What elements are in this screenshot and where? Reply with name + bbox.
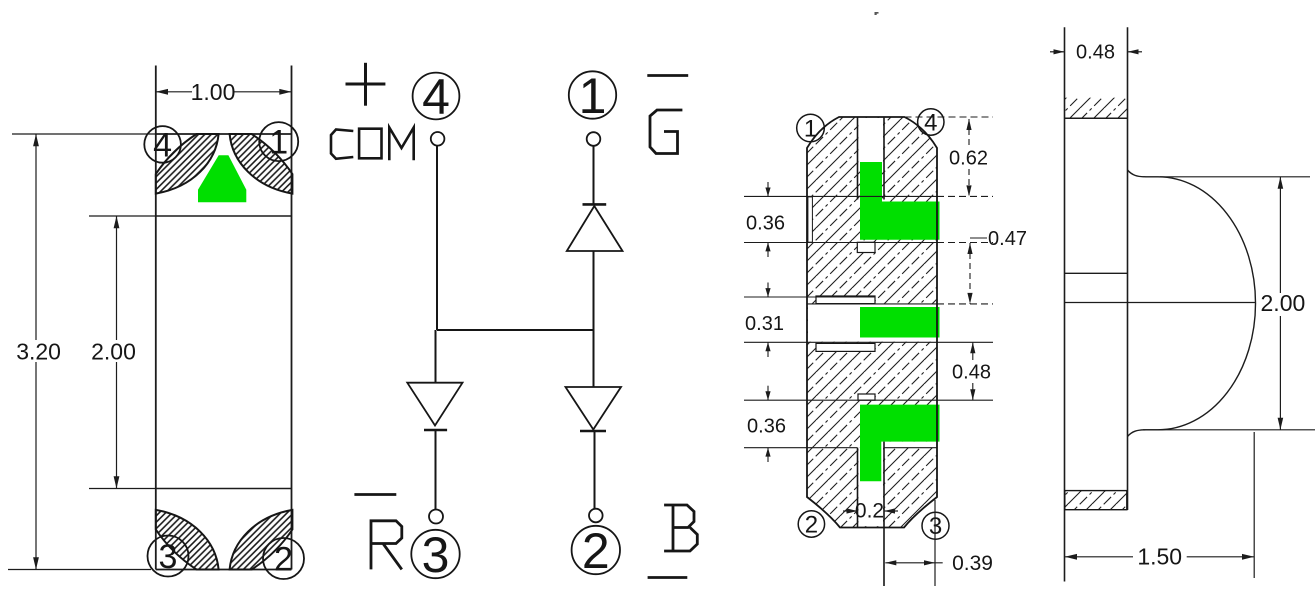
anode rail (horizontal wire) — [437, 329, 594, 331]
svg-text:2: 2 — [274, 541, 293, 579]
svg-text:1: 1 — [269, 124, 288, 162]
lens equator line — [1065, 302, 1256, 304]
white notch upper-middle — [816, 296, 875, 304]
dimension 2.00 (band height) — [89, 216, 156, 489]
top terminal plating (hatched) — [1065, 98, 1128, 119]
dimension 1.50 (overall width) — [1065, 432, 1254, 578]
wire rail to diode B — [593, 330, 595, 387]
pin number 3 balloon — [148, 536, 189, 577]
svg-text:0.48: 0.48 — [1076, 42, 1115, 64]
svg-text:1.00: 1.00 — [191, 79, 236, 105]
wire COM vertical — [436, 146, 438, 330]
svg-text:2: 2 — [582, 523, 610, 579]
pin 3 balloon — [411, 527, 459, 583]
svg-text:0.36: 0.36 — [746, 213, 785, 235]
dimension 0.36 (top left) — [765, 182, 770, 257]
pad number 3 balloon — [922, 512, 949, 540]
dimension 0.48 (body thickness) — [1050, 49, 1142, 54]
svg-text:2: 2 — [805, 512, 818, 539]
white notch above bottom pad — [858, 394, 875, 400]
pin 1 terminal circle — [587, 132, 601, 146]
dashed extension lines (right side) — [905, 117, 994, 304]
wire rail to diode R — [435, 330, 437, 383]
left thin notch strip — [808, 197, 813, 242]
dimension 0.62 (top right, dashed) — [966, 119, 971, 196]
top slot (white) — [859, 118, 884, 163]
pin 4 balloon — [413, 69, 460, 125]
middle white band — [808, 304, 936, 342]
terminal pad pin1 (top-right hatched crescent) — [230, 134, 293, 194]
stray tick mark — [875, 12, 879, 15]
COM label — [331, 128, 414, 161]
svg-text:1: 1 — [579, 68, 607, 124]
R label with overline — [354, 495, 401, 570]
top slot side lines — [858, 117, 885, 200]
horizontal reference lines — [744, 196, 993, 447]
dimension 2.00 (lens height) — [1143, 177, 1315, 430]
svg-text:3.20: 3.20 — [16, 339, 61, 365]
wire diode B to pin2 — [594, 431, 596, 509]
pin 1 balloon — [569, 68, 616, 124]
dome lens profile — [1128, 170, 1256, 437]
dimension 0.31 (middle left) — [765, 283, 770, 358]
pad number 1 balloon — [797, 114, 825, 142]
svg-text:0.48: 0.48 — [952, 362, 991, 384]
pad view body outline stroke — [807, 117, 937, 528]
svg-text:4: 4 — [924, 110, 937, 137]
dimension 1.00 (width) — [156, 89, 292, 95]
bottom slot (white) — [859, 448, 884, 527]
B label with underline — [648, 504, 698, 578]
svg-text:0.39: 0.39 — [952, 552, 993, 575]
wire diode R to pin3 — [435, 430, 437, 510]
diode D-G (green LED, cathode up) — [567, 204, 623, 251]
svg-text:0.36: 0.36 — [747, 416, 786, 438]
diode D-R (red LED, cathode down) — [407, 383, 462, 430]
svg-text:1.50: 1.50 — [1137, 544, 1182, 570]
dimension 3.20 (overall height) — [8, 134, 156, 570]
bottom terminal plating (hatched) — [1065, 491, 1127, 510]
svg-text:4: 4 — [153, 126, 172, 164]
pad 3 (green, r shape) — [860, 405, 940, 482]
pin number 1 balloon — [259, 122, 298, 162]
dimension 0.36 (bottom left) — [765, 386, 770, 462]
pad COM (green, middle) — [860, 307, 940, 338]
svg-text:4: 4 — [422, 69, 450, 125]
pin 2 terminal circle — [589, 509, 603, 523]
white tab below pad 4 — [857, 242, 875, 252]
svg-text:1: 1 — [804, 116, 817, 143]
svg-text:0.2: 0.2 — [855, 500, 884, 523]
side view body edges — [1065, 27, 1128, 581]
G label with overline — [647, 76, 688, 154]
body band line — [1065, 272, 1128, 274]
diode D-B (blue LED, cathode down) — [566, 387, 622, 431]
pad view body (hatched) — [807, 117, 937, 528]
terminal pad pin4 (top-left hatched crescent) — [156, 134, 219, 194]
LED chip (green emitting area) — [198, 155, 246, 202]
dimension 0.48 (right) — [970, 342, 975, 400]
wire pin1 to diode G — [593, 146, 595, 204]
pin 3 terminal circle — [429, 510, 443, 524]
svg-text:0.62: 0.62 — [949, 148, 988, 170]
svg-text:2.00: 2.00 — [1261, 290, 1306, 316]
pin 2 balloon — [572, 523, 620, 579]
svg-text:0.31: 0.31 — [745, 313, 784, 335]
pin 4 terminal circle — [431, 132, 445, 146]
dimension 0.39 (bottom) — [885, 500, 942, 586]
plus polarity symbol — [346, 63, 386, 106]
terminal pad pin2 (bottom-right hatched crescent) — [230, 510, 293, 570]
white notch lower-middle — [816, 343, 875, 351]
svg-text:0.47: 0.47 — [988, 228, 1027, 250]
dimension 0.2 (slot width) — [843, 508, 898, 513]
wire diode G to rail — [593, 251, 595, 330]
svg-text:2.00: 2.00 — [91, 339, 136, 365]
svg-text:3: 3 — [422, 527, 450, 583]
terminal pad pin3 (bottom-left hatched crescent) — [156, 510, 219, 570]
dimension 0.47 (right, dashed with leader) — [967, 238, 987, 304]
white band right of bottom strip — [881, 442, 939, 448]
package body outline (top view) — [156, 66, 292, 570]
svg-text:3: 3 — [159, 538, 178, 576]
pad number 2 balloon — [798, 511, 824, 539]
pad number 4 balloon — [918, 109, 944, 137]
pad 4 (green, L shape) — [860, 162, 940, 240]
inner leadframe band lines — [156, 216, 292, 489]
pin number 2 balloon — [263, 538, 304, 579]
bottom slot side lines — [858, 442, 885, 586]
pin number 4 balloon — [144, 126, 181, 164]
